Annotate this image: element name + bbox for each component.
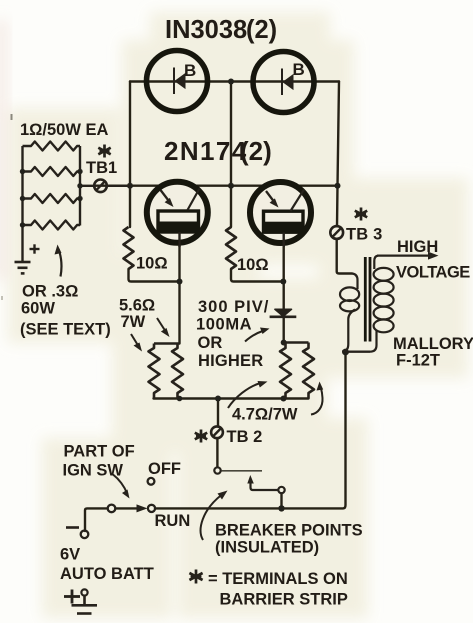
svg-text:(SEE TEXT): (SEE TEXT): [20, 321, 111, 339]
junction bank right TB1 stub: [77, 183, 82, 188]
asterisk at TB2: [195, 430, 207, 443]
svg-text:B: B: [293, 60, 305, 79]
junction bank left row2: [20, 169, 25, 174]
wire base bus: [94, 184, 338, 186]
wire mid vertical from diode junction: [230, 82, 232, 228]
svg-text:7W: 7W: [121, 313, 146, 331]
breaker upper contact: [214, 467, 220, 473]
svg-text:AUTO BATT: AUTO BATT: [60, 565, 154, 583]
rectifier diode 300PIV: [270, 309, 297, 317]
junction bottom bus / 4.7 pair: [281, 396, 287, 402]
diode D2 circle (1N3038): [253, 52, 314, 113]
arrow from 4.7 label to pair (left): [228, 384, 259, 409]
svg-text:OR: OR: [198, 334, 223, 352]
junction emitter Q2 / R2: [280, 279, 286, 285]
junction bank right row2: [77, 169, 82, 174]
junction base bus right: [335, 183, 341, 189]
svg-text:OR .3Ω: OR .3Ω: [22, 283, 78, 301]
resistor bank 1ohm/50W: rails: [23, 142, 131, 262]
transistor Q1 base bar: [158, 211, 199, 232]
transistor Q1 emitter arrow: [161, 190, 169, 201]
wire TB3 rail to transformer: [337, 239, 352, 274]
wire TB2 stub: [217, 399, 219, 427]
svg-text:RUN: RUN: [155, 512, 191, 530]
junction diode / 4.7 pair: [281, 340, 287, 346]
svg-text:(2): (2): [240, 136, 272, 166]
switch arm arrowhead: [137, 504, 148, 512]
4.7ohm pair top bar: [284, 341, 309, 343]
battery minus terminal: [81, 531, 89, 539]
svg-text:PART OF: PART OF: [64, 443, 135, 461]
svg-text:MALLORY: MALLORY: [393, 335, 473, 353]
svg-text:HIGH: HIGH: [397, 238, 438, 256]
svg-text:(INSULATED): (INSULATED): [215, 539, 319, 557]
ground symbol: [15, 262, 31, 273]
resistor bank row 4: [23, 221, 81, 230]
svg-text:TB1: TB1: [86, 159, 117, 177]
junction bank left row3: [20, 196, 25, 201]
transformer bottom link: [346, 351, 371, 353]
svg-text:= TERMINALS ON: = TERMINALS ON: [208, 570, 348, 588]
junction bank right row3: [77, 196, 82, 201]
svg-text:BREAKER POINTS: BREAKER POINTS: [215, 522, 363, 540]
svg-text:6V: 6V: [60, 546, 80, 564]
resistor 5.6ohm right: [172, 344, 183, 399]
junction bank left row4: [20, 222, 25, 227]
resistor R 10ohm (right): [226, 227, 236, 269]
svg-text:F-12T: F-12T: [396, 352, 440, 370]
terminal TB3: [330, 226, 343, 239]
wire switch pole to battery: [85, 508, 108, 531]
arrow from 5.6 label to left pair resistor 1: [131, 334, 139, 347]
asterisk at TB3: [355, 208, 367, 221]
svg-text:HIGHER: HIGHER: [198, 352, 263, 370]
wire emitter Q1 down: [178, 240, 180, 344]
transformer T1 core: [365, 257, 370, 342]
diode D2 symbol: [282, 69, 293, 96]
asterisk at TB1: [98, 145, 110, 158]
junction TB2 node: [215, 396, 221, 402]
svg-text:VOLTAGE: VOLTAGE: [396, 264, 470, 282]
wire 10ohm R1 bottom to emitter Q1: [129, 269, 180, 282]
wire emitter Q2 / rectifier branch: [283, 240, 285, 343]
arrow from 4.7 label to pair (right): [311, 388, 323, 415]
svg-text:BARRIER STRIP: BARRIER STRIP: [220, 591, 348, 609]
wire left rail top: [129, 82, 131, 228]
5.6ohm pair top bar: [154, 342, 180, 344]
wire top bus through diodes: [130, 80, 339, 82]
asterisk legend symbol: [189, 570, 202, 584]
wire bottom bus of resistor pairs: [154, 397, 309, 399]
transistor Q1 emitter stub: [178, 232, 180, 247]
wire TB2 to breaker upper contact: [216, 438, 218, 466]
junction top bus / diode link: [228, 79, 234, 85]
breaker lower contact: [278, 487, 284, 493]
terminal TB2: [211, 426, 223, 438]
terminal TB1: [94, 180, 107, 193]
resistor 5.6ohm left: [149, 344, 160, 399]
switch OFF contact: [148, 478, 155, 485]
switch RUN contact: [148, 505, 155, 512]
transformer secondary winding: [370, 256, 394, 352]
svg-text:OFF: OFF: [148, 460, 181, 478]
plus sign at ground: [30, 244, 40, 253]
resistor bank row 2: [23, 167, 81, 176]
svg-text:100MA: 100MA: [196, 316, 252, 334]
stray scan mark left edge lower: [1, 296, 3, 300]
resistor 4.7ohm left: [280, 343, 291, 399]
junction TB1 node: [127, 183, 133, 189]
svg-text:1Ω/50W EA: 1Ω/50W EA: [20, 121, 109, 139]
svg-text:300 PIV/: 300 PIV/: [198, 298, 269, 316]
transistor Q2 emitter arrow: [266, 191, 274, 201]
transistor Q2 emitter stub: [283, 233, 285, 248]
resistor R 10ohm (left): [124, 227, 134, 269]
svg-text:TB 3: TB 3: [346, 226, 383, 244]
transformer primary winding: [340, 274, 359, 352]
svg-text:5.6Ω: 5.6Ω: [119, 297, 155, 315]
wire switch arm RUN: [116, 507, 139, 509]
transistor Q2 circle (2N174): [250, 182, 311, 243]
curved arrow from OR .3 text to ground: [59, 249, 62, 277]
junction breaker / bottom bus: [278, 505, 284, 511]
svg-text:B: B: [184, 61, 196, 80]
high voltage output arrow: [377, 254, 432, 256]
switch pole contact: [108, 505, 116, 513]
resistor bank row 1: [23, 142, 81, 151]
transistor Q1 circle (2N174): [147, 182, 208, 243]
arrow from 5.6 label to left pair resistor 2: [157, 318, 166, 332]
junction 5.6 pair bottom: [177, 396, 183, 402]
junction emitter Q1 / R1: [177, 279, 183, 285]
wire bottom bus: [155, 352, 346, 508]
transistor Q2 base bar: [264, 211, 304, 232]
svg-text:(2): (2): [246, 16, 277, 44]
transistor Q2 collector stroke: [291, 190, 305, 212]
diode D1 circle (1N3038): [147, 51, 208, 112]
svg-text:IN3038: IN3038: [165, 16, 247, 44]
battery plus sign: [64, 590, 80, 604]
wire lower breaker contact to bottom bus: [280, 493, 282, 508]
junction base bus center: [228, 183, 234, 189]
svg-text:60W: 60W: [21, 300, 55, 318]
resistor 4.7ohm right: [303, 343, 314, 399]
svg-text:2N174: 2N174: [164, 136, 248, 166]
wire right rail top: [337, 82, 339, 227]
svg-text:10Ω: 10Ω: [237, 256, 269, 274]
resistor bank row 3: [23, 194, 81, 203]
stray scan mark left edge: [11, 114, 13, 120]
svg-text:TB 2: TB 2: [227, 428, 263, 446]
arrow from OR/HIGHER label to rectifier diode: [245, 331, 264, 342]
battery minus sign: [66, 526, 79, 529]
svg-text:4.7Ω/7W: 4.7Ω/7W: [232, 406, 298, 424]
diode D1 symbol: [174, 68, 185, 95]
junction transformer bottom: [342, 349, 349, 356]
transistor Q1 collector stroke: [188, 189, 200, 211]
arrow from BREAKER POINTS label: [201, 495, 222, 541]
wire 10ohm R2 bottom to emitter Q2: [231, 269, 284, 282]
battery cell symbol: [81, 589, 87, 595]
svg-text:10Ω: 10Ω: [136, 255, 168, 273]
arrow from IGN SW label: [113, 475, 128, 495]
svg-text:IGN SW: IGN SW: [63, 462, 124, 480]
wire TB1 stub: [80, 185, 94, 187]
